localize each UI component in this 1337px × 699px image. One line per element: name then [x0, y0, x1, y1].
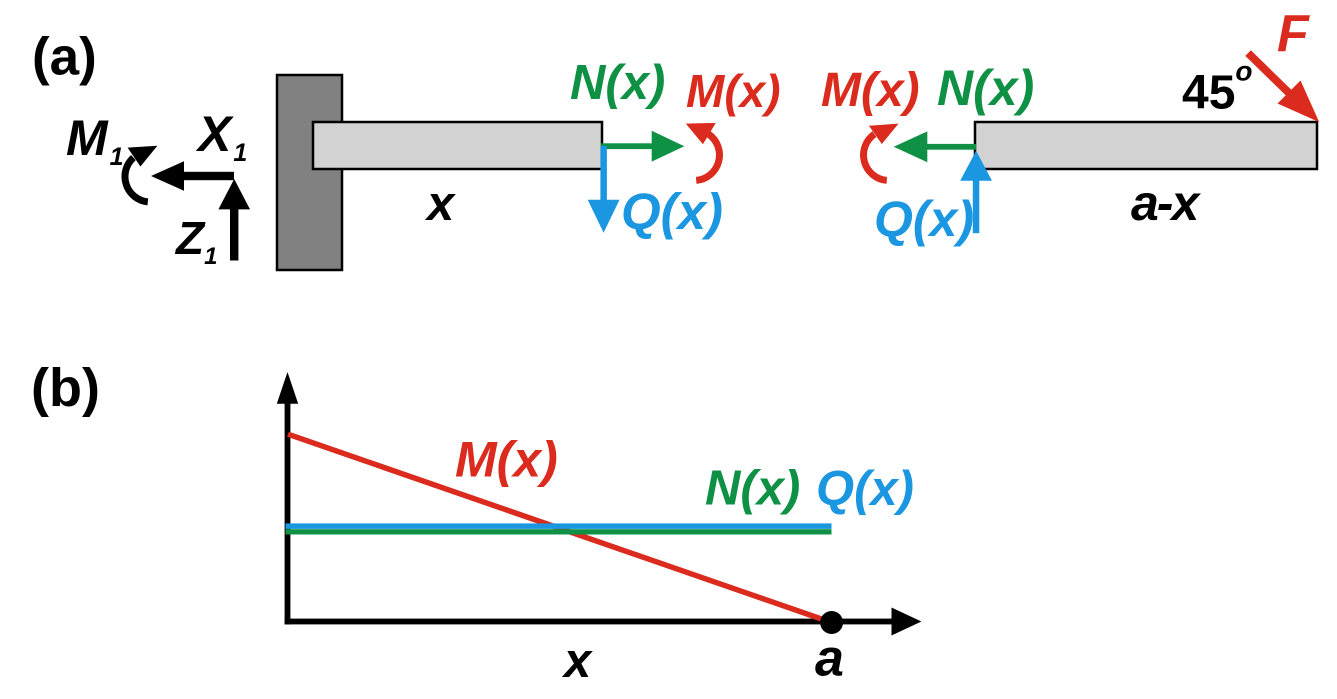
svg-text:(b): (b) — [31, 358, 100, 418]
shear force arrow Q(x) right (blue, upward) — [960, 151, 992, 233]
fixed support (wall) — [277, 75, 342, 270]
moment arrow M1 (curved, CCW) — [125, 146, 157, 202]
svg-text:N(x): N(x) — [937, 60, 1034, 116]
M(x) curve (red line) — [288, 434, 832, 622]
svg-text:M(x): M(x) — [455, 432, 558, 488]
svg-text:a: a — [815, 630, 844, 688]
svg-text:x: x — [424, 177, 456, 231]
normal force arrow N(x) left (green, rightward) — [601, 131, 684, 162]
svg-text:M1: M1 — [66, 110, 124, 171]
svg-text:N(x): N(x) — [705, 462, 800, 516]
right beam segment — [975, 122, 1317, 169]
moment arrow M(x) right (red, CCW) — [864, 124, 899, 181]
svg-text:N(x): N(x) — [570, 56, 665, 110]
svg-text:Q(x): Q(x) — [621, 183, 723, 240]
svg-text:M(x): M(x) — [821, 64, 920, 117]
moment arrow M(x) left (red, CCW) — [686, 123, 720, 180]
left beam segment — [313, 122, 602, 169]
y-axis — [277, 372, 298, 624]
normal force arrow N(x) right (green, leftward) — [894, 131, 976, 162]
point a (black dot) — [820, 611, 843, 634]
svg-text:F: F — [1277, 5, 1310, 63]
svg-text:M(x): M(x) — [686, 65, 781, 117]
force arrow F (red, 45 degrees down-right) — [1245, 50, 1319, 122]
svg-text:Z1: Z1 — [174, 212, 217, 270]
reaction arrow X1 (leftward) — [151, 161, 234, 190]
svg-text:Q(x): Q(x) — [874, 191, 974, 247]
reaction arrow Z1 (upward) — [218, 179, 250, 261]
svg-text:x: x — [561, 634, 593, 688]
x-axis — [285, 608, 922, 636]
svg-text:(a): (a) — [32, 28, 97, 87]
shear force arrow Q(x) left (blue, downward) — [588, 146, 620, 233]
svg-text:a-x: a-x — [1131, 175, 1201, 231]
Q(x) curve (blue line) — [286, 523, 832, 529]
svg-text:X1: X1 — [195, 106, 247, 167]
svg-text:45o: 45o — [1182, 56, 1253, 120]
N(x) curve (green line) — [286, 529, 832, 534]
svg-text:Q(x): Q(x) — [816, 462, 914, 516]
